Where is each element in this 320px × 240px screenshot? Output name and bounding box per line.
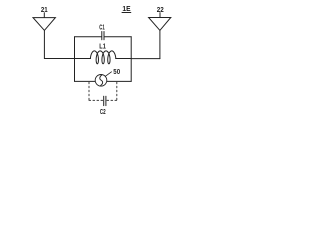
wire: right bus to resonator (131, 58, 160, 60)
wire: top branch right of C1 (105, 36, 132, 38)
wire: bottom branch right of 50 (107, 80, 131, 82)
dashed wire: horizontal left of C2 (89, 99, 103, 101)
underline of 1E (122, 12, 131, 14)
dashed wire: right side down from bottom branch (116, 82, 118, 100)
leader line for label 22 (159, 13, 161, 18)
wire: top branch left of C1 (75, 36, 102, 38)
svg-text:C2: C2 (100, 107, 106, 116)
wire: middle branch right of L1 (116, 58, 132, 60)
wire: left bus to resonator (44, 58, 74, 60)
dashed wire: horizontal right of C2 (107, 99, 117, 101)
antenna 22 (149, 18, 171, 31)
wire: bottom branch left of 50 (75, 80, 96, 82)
oscillator 50 sine squiggle (100, 75, 103, 86)
wire: loop left edge (74, 37, 76, 82)
oscillator 50 circle (95, 75, 107, 87)
wire: antenna 22 feed down (159, 30, 161, 58)
capacitor C1 plates (101, 32, 103, 40)
antenna 21 (33, 18, 55, 31)
wire: loop right edge (130, 37, 132, 82)
svg-text:1E: 1E (122, 4, 130, 13)
wire: middle branch left of L1 (75, 58, 91, 60)
svg-text:C1: C1 (99, 22, 104, 31)
wire: antenna 21 feed down (43, 30, 45, 58)
capacitor C2 plates (103, 96, 105, 105)
inductor L1 coil (90, 51, 115, 64)
leader line for label 21 (43, 13, 45, 17)
dashed wire: left side down from bottom branch (88, 82, 90, 100)
leader line for label 50 (105, 72, 111, 77)
svg-text:50: 50 (113, 67, 120, 76)
svg-text:L1: L1 (99, 41, 106, 50)
